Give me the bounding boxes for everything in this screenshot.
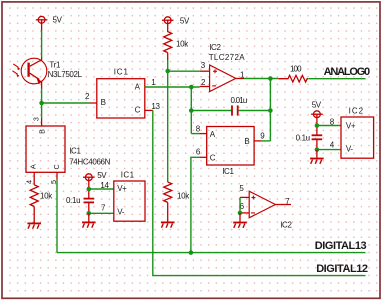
supply +5V symbol P4 (IC2 power) [311, 111, 323, 120]
wire node to V+ pin 14 [89, 188, 114, 190]
svg-text:5V: 5V [97, 171, 107, 180]
svg-text:V-: V- [346, 145, 354, 154]
svg-text:ANALOG0: ANALOG0 [324, 66, 370, 78]
svg-text:14: 14 [100, 181, 109, 190]
supply +5V symbol P2 (top-middle) [162, 17, 174, 24]
node rail junction right [268, 108, 273, 113]
wire Tr1 emitter to node [41, 89, 43, 104]
svg-text:B: B [101, 98, 106, 107]
svg-text:V-: V- [117, 208, 125, 217]
pin 8 stub [199, 133, 207, 135]
wire 5V to Tr1 collector [41, 31, 43, 58]
svg-text:10k: 10k [176, 39, 189, 48]
svg-text:C: C [135, 105, 141, 114]
wire node to IC1 pin B [42, 102, 90, 104]
wire pin5 down to DIGITAL13 [56, 180, 58, 253]
pin 6 stub [199, 156, 207, 158]
node pin2 junction [189, 85, 194, 90]
svg-text:N3L7502L: N3L7502L [48, 70, 83, 79]
resistor R middle 10k (vertical) [164, 182, 172, 222]
svg-text:DIGITAL13: DIGITAL13 [315, 240, 367, 252]
svg-text:10k: 10k [177, 191, 190, 200]
power box IC2 V+/V- [341, 117, 374, 158]
wire rail to cap [191, 110, 232, 112]
wire feedback vertical [269, 79, 271, 141]
pin 3 stub [41, 119, 43, 127]
wire 5V to V+ node [316, 120, 318, 135]
wire opamp output [244, 78, 278, 80]
wire node to V- pin 7 [89, 212, 114, 214]
node rail junction left [189, 108, 194, 113]
svg-text:IC2: IC2 [280, 221, 292, 230]
op-amp U IC2B (unused half) [240, 191, 291, 218]
svg-text:DIGITAL12: DIGITAL12 [316, 263, 368, 275]
wire cap to V- node [88, 203, 90, 214]
svg-text:IC1: IC1 [114, 68, 129, 77]
svg-text:B: B [38, 129, 47, 134]
svg-text:IC2: IC2 [349, 107, 364, 116]
svg-text:0.1u: 0.1u [66, 196, 80, 205]
pin 5 stub [56, 172, 58, 180]
svg-text:5V: 5V [312, 101, 322, 110]
wire node to V+ pin 8 [317, 125, 341, 127]
svg-text:5V: 5V [53, 16, 63, 25]
transistor Tr1 phototransistor [12, 57, 46, 88]
svg-text:TLC272A: TLC272A [209, 53, 246, 62]
node V+ junction [87, 187, 92, 192]
svg-text:3: 3 [32, 117, 41, 121]
node pin6 junction [238, 211, 243, 216]
IC1 gate box (A/B/C second unit) [207, 127, 254, 166]
supply +5V symbol P1 (top-left) [36, 16, 48, 30]
op-amp U IC2A TLC272A [200, 65, 244, 92]
svg-text:74HC4066N: 74HC4066N [69, 157, 110, 166]
wire cap to V- node [316, 140, 318, 150]
svg-text:V+: V+ [117, 184, 127, 193]
pin 4 stub [33, 172, 35, 185]
svg-text:IC1: IC1 [121, 170, 135, 179]
svg-text:B: B [244, 137, 249, 146]
wire joining pins 5-6 [239, 197, 241, 213]
resistor R top 10k (vertical) [164, 24, 172, 60]
svg-text:10k: 10k [40, 192, 53, 201]
pin 9 stub [254, 140, 262, 142]
ground GND (4066 power) [82, 213, 96, 227]
switch IC1 74HC4066 box (first unit, rotated) [26, 126, 65, 172]
svg-text:C: C [52, 164, 61, 169]
svg-text:IC2: IC2 [209, 43, 221, 52]
resistor R left 10k (vertical) [30, 185, 38, 223]
svg-text:100: 100 [290, 64, 302, 73]
node DIGITAL13 junction [189, 250, 194, 255]
node junction at emitter [39, 101, 44, 106]
pin 2 stub (B) [90, 102, 97, 104]
node output junction [268, 76, 273, 81]
pin 1 wire A to opamp [145, 86, 200, 88]
wire node down to switch pin 3 [41, 103, 43, 119]
resistor R 100 (horizontal) [278, 75, 308, 82]
ground GND (opamp B) [233, 213, 247, 228]
IC1 gate box (A/B/C first unit) [97, 79, 145, 118]
wire to pin9 [262, 140, 271, 142]
node V- junction [315, 147, 320, 152]
wire 5V to V+ node [88, 185, 90, 199]
svg-text:A: A [29, 164, 38, 169]
svg-text:13: 13 [151, 102, 160, 111]
svg-text:0.01u: 0.01u [231, 96, 247, 105]
wire node to V- pin 4 [317, 149, 341, 151]
pin 13 stub (C) [145, 109, 153, 111]
node V- junction [87, 211, 92, 216]
supply +5V symbol P3 (4066 power) [83, 174, 95, 185]
ground GND (IC2 power) [310, 150, 324, 164]
wire pin8 horizontal [191, 133, 199, 135]
svg-text:C: C [210, 153, 216, 162]
node V+ junction [315, 123, 320, 128]
wire node to opamp pin3 [168, 70, 200, 72]
svg-text:0.1u: 0.1u [296, 134, 310, 143]
capacitor C 0.1u (IC2) [312, 135, 323, 139]
wire cap to node [239, 110, 271, 112]
capacitor C 0.1u (4066) [84, 199, 95, 203]
wire pin13 down to DIGITAL12 [153, 110, 366, 275]
ground GND (left 10k) [27, 223, 41, 228]
wire DIGITAL13 [57, 252, 366, 254]
svg-text:4: 4 [24, 180, 33, 184]
wire 10k to node [167, 60, 169, 71]
wire pin2 net vertical [190, 87, 192, 134]
capacitor C 0.01u [232, 105, 238, 115]
svg-text:5V: 5V [180, 16, 190, 25]
node divider junction [165, 69, 170, 74]
svg-text:IC1: IC1 [69, 146, 81, 155]
svg-text:Tr1: Tr1 [49, 61, 61, 70]
wire pin6 to DIGITAL13 [191, 157, 199, 252]
svg-text:V+: V+ [346, 122, 356, 131]
svg-text:IC1: IC1 [222, 167, 234, 176]
power box IC1 74HC4066 V+/V- [114, 181, 145, 221]
wire ANALOG0 [308, 78, 365, 80]
wire divider down [167, 71, 169, 182]
ground GND (middle 10k) [161, 222, 175, 227]
